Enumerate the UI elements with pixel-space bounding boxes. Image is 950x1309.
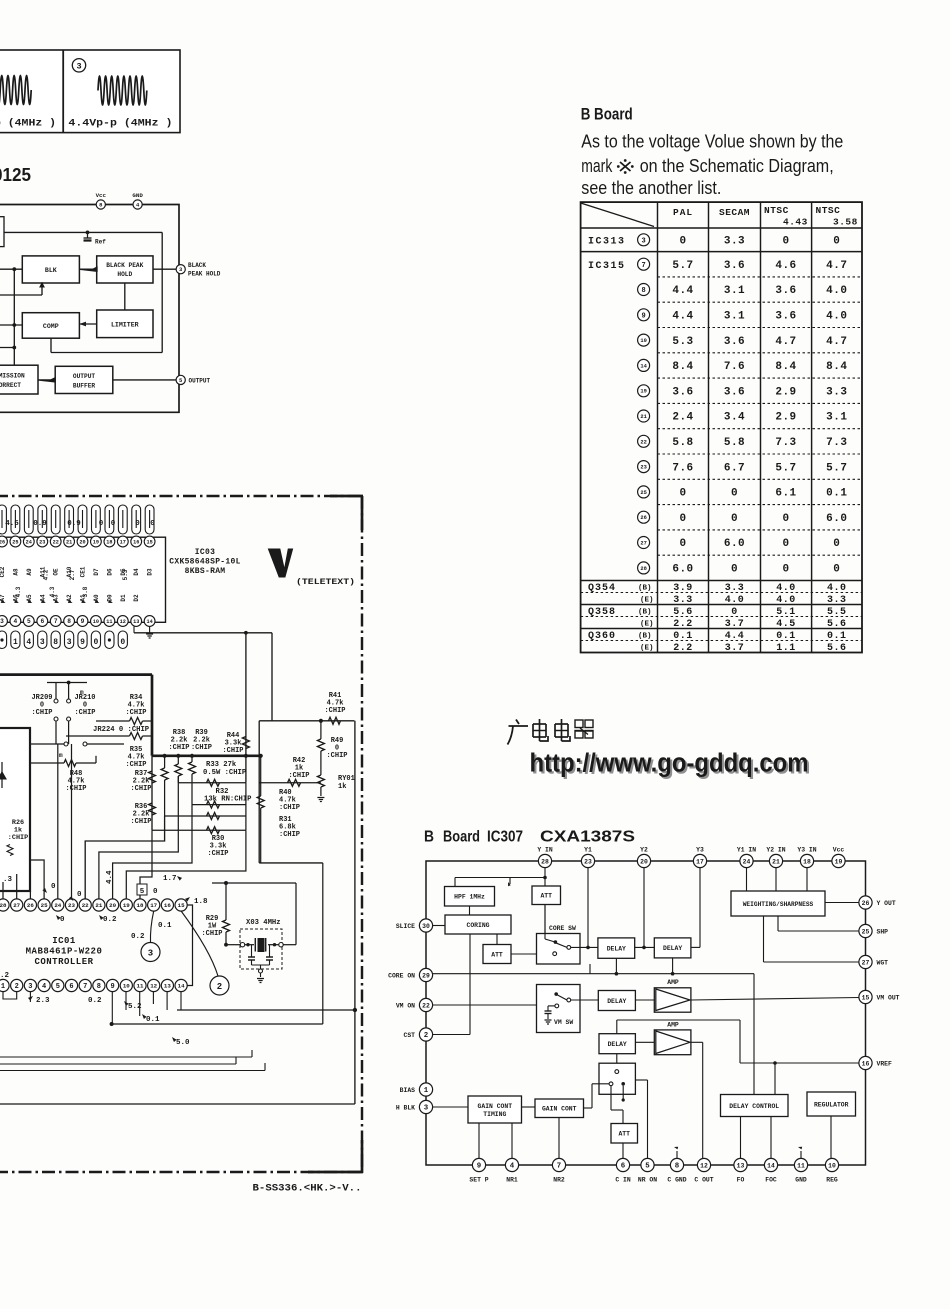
svg-text:JR224 0 :CHIP: JR224 0 :CHIP (93, 726, 150, 734)
svg-text:7.6: 7.6 (724, 361, 745, 373)
svg-text:5: 5 (27, 618, 31, 625)
svg-text:0.2: 0.2 (103, 916, 117, 924)
svg-text:19: 19 (93, 539, 99, 545)
svg-text:21: 21 (95, 902, 102, 909)
svg-text:25: 25 (12, 539, 18, 545)
svg-text:Ref: Ref (95, 239, 106, 246)
svg-text:Vcc: Vcc (833, 847, 845, 854)
svg-text:VM SW: VM SW (554, 1019, 573, 1026)
svg-text:AMP: AMP (667, 979, 679, 986)
svg-text:3.6: 3.6 (672, 386, 693, 398)
svg-text:AMP: AMP (667, 1022, 679, 1029)
svg-text:23: 23 (68, 902, 75, 909)
svg-text:9: 9 (641, 312, 645, 320)
svg-text:12: 12 (120, 619, 126, 625)
svg-text:RY01: RY01 (338, 775, 355, 783)
svg-text:(B): (B) (638, 585, 652, 593)
svg-text:0: 0 (679, 488, 686, 500)
svg-text:3.1: 3.1 (724, 285, 745, 297)
svg-text:9: 9 (477, 1163, 481, 1171)
svg-text:5.3: 5.3 (672, 336, 693, 348)
svg-text:5: 5 (56, 983, 60, 991)
svg-text:8: 8 (67, 618, 71, 625)
svg-text:24: 24 (54, 902, 61, 909)
svg-text:4.2: 4.2 (43, 569, 50, 580)
svg-text::CHIP: :CHIP (168, 744, 189, 752)
svg-text:6.0: 6.0 (826, 513, 847, 525)
svg-text:Y3: Y3 (696, 847, 704, 854)
svg-text:5.6: 5.6 (673, 607, 693, 618)
svg-text:4.0: 4.0 (827, 583, 847, 594)
svg-text:19: 19 (640, 389, 646, 395)
svg-text:20: 20 (640, 858, 648, 865)
svg-text:14: 14 (767, 1162, 775, 1169)
svg-text:9: 9 (81, 618, 85, 625)
svg-text:15: 15 (178, 902, 185, 909)
svg-text:21: 21 (772, 858, 780, 865)
svg-text:14: 14 (178, 983, 185, 990)
svg-text:0: 0 (153, 888, 158, 896)
svg-text::CHIP: :CHIP (324, 707, 345, 715)
svg-text:8: 8 (53, 638, 58, 647)
svg-text::CHIP: :CHIP (288, 772, 309, 780)
svg-text:5: 5 (140, 888, 145, 896)
svg-text::CHIP: :CHIP (326, 752, 347, 760)
svg-text:5.8: 5.8 (724, 437, 745, 449)
svg-text:ATT: ATT (540, 893, 552, 900)
svg-text:Y2 IN: Y2 IN (766, 847, 785, 854)
svg-text:0: 0 (679, 513, 686, 525)
svg-text::CHIP: :CHIP (279, 804, 300, 812)
svg-text:B Board: B Board (581, 106, 633, 124)
svg-text:3.3: 3.3 (826, 386, 847, 398)
svg-text:7: 7 (54, 618, 58, 625)
svg-text:26: 26 (0, 539, 5, 545)
svg-text:2.9: 2.9 (775, 412, 796, 424)
svg-text:2.9: 2.9 (775, 386, 796, 398)
svg-text:11: 11 (106, 619, 112, 625)
svg-text::CHIP: :CHIP (125, 709, 146, 717)
svg-text:7: 7 (83, 983, 87, 991)
svg-text:C IN: C IN (615, 1177, 631, 1184)
svg-text:3.6: 3.6 (775, 285, 796, 297)
svg-text:GND: GND (795, 1177, 807, 1184)
svg-text:3: 3 (0, 618, 4, 625)
svg-text:NSMISSION: NSMISSION (0, 373, 25, 380)
svg-text:4.43: 4.43 (783, 217, 808, 228)
svg-text:28: 28 (541, 858, 549, 865)
svg-text:25: 25 (41, 902, 48, 909)
svg-text:4.4: 4.4 (672, 285, 693, 297)
svg-text:6.1: 6.1 (775, 488, 796, 500)
svg-text:1: 1 (424, 1087, 429, 1095)
svg-text:3.6: 3.6 (724, 386, 745, 398)
svg-text:6: 6 (621, 1163, 626, 1171)
svg-text:CXK58648SP-10L: CXK58648SP-10L (169, 558, 240, 567)
svg-text:4: 4 (510, 1163, 515, 1171)
svg-text:16: 16 (133, 539, 139, 545)
svg-text:4: 4 (26, 638, 31, 647)
svg-text:3.3: 3.3 (725, 583, 745, 594)
svg-text:11: 11 (137, 983, 144, 990)
svg-text:0: 0 (731, 607, 738, 618)
svg-text:mark: mark (581, 156, 613, 176)
svg-text:17: 17 (120, 539, 126, 545)
svg-text:0.1: 0.1 (158, 922, 172, 930)
svg-text::CHIP: :CHIP (8, 834, 28, 842)
svg-text:22: 22 (640, 439, 646, 445)
svg-text:4.3: 4.3 (15, 586, 22, 597)
svg-text:2.4: 2.4 (672, 412, 693, 424)
svg-text:CORING: CORING (466, 922, 489, 929)
svg-text:BIAS: BIAS (400, 1087, 416, 1094)
svg-text:3: 3 (641, 237, 645, 245)
svg-text:0: 0 (782, 564, 789, 576)
svg-text:1: 1 (1, 983, 5, 991)
svg-text:SHP: SHP (877, 928, 889, 935)
svg-text:1k: 1k (338, 783, 346, 791)
svg-text:(B): (B) (638, 609, 652, 617)
svg-text:Q354: Q354 (588, 583, 616, 594)
svg-text:15: 15 (862, 994, 870, 1001)
svg-text:0: 0 (731, 488, 738, 500)
svg-text::CHIP: :CHIP (125, 761, 146, 769)
svg-text:4.4: 4.4 (106, 870, 114, 884)
svg-text:NR1: NR1 (506, 1177, 518, 1184)
svg-text:GND: GND (132, 192, 143, 199)
svg-text:CORE ON: CORE ON (388, 972, 415, 979)
svg-text::CHIP: :CHIP (279, 831, 300, 839)
svg-text:0.1: 0.1 (827, 631, 847, 642)
svg-text:BLACK: BLACK (188, 262, 206, 269)
svg-text:D2: D2 (133, 594, 140, 602)
svg-text:0: 0 (135, 520, 140, 528)
svg-text:10: 10 (828, 1162, 836, 1169)
svg-text:CE1: CE1 (80, 566, 87, 577)
svg-text:6.0: 6.0 (672, 564, 693, 576)
svg-text:CXA1387S: CXA1387S (540, 829, 635, 846)
svg-text:2.2: 2.2 (673, 643, 693, 654)
svg-text:28: 28 (0, 902, 7, 909)
svg-text::CHIP: :CHIP (207, 850, 228, 858)
svg-text:PEAK HOLD: PEAK HOLD (188, 271, 221, 278)
svg-text:4.7: 4.7 (775, 336, 796, 348)
svg-text:D1: D1 (120, 594, 127, 602)
svg-text::CHIP: :CHIP (31, 709, 52, 717)
svg-text:REG: REG (826, 1177, 838, 1184)
svg-text:29: 29 (422, 972, 430, 979)
svg-text:1.1: 1.1 (776, 643, 796, 654)
svg-text:4.0: 4.0 (826, 285, 847, 297)
svg-text:NTSC: NTSC (816, 205, 841, 216)
svg-text:22: 22 (422, 1002, 430, 1009)
svg-text:8: 8 (641, 287, 645, 295)
svg-text:0.9: 0.9 (33, 520, 47, 528)
svg-text:3: 3 (28, 983, 32, 991)
svg-text:CST: CST (403, 1032, 415, 1039)
svg-text:4.5: 4.5 (5, 520, 19, 528)
svg-text:SECAM: SECAM (719, 207, 750, 218)
svg-text:NR2: NR2 (553, 1177, 565, 1184)
svg-text:WEIGHTING/SHARPNESS: WEIGHTING/SHARPNESS (743, 901, 814, 908)
svg-text:3.3: 3.3 (724, 235, 745, 247)
svg-text:p (4MHz ): p (4MHz ) (0, 118, 56, 130)
svg-text:0: 0 (99, 520, 104, 528)
svg-text:3.7: 3.7 (725, 643, 745, 654)
svg-text::CHIP: :CHIP (65, 785, 86, 793)
svg-text:2.7: 2.7 (69, 569, 76, 580)
svg-text:25: 25 (640, 490, 646, 496)
svg-text:0.1: 0.1 (776, 631, 796, 642)
svg-text:3: 3 (148, 949, 153, 959)
svg-text:A7: A7 (0, 594, 6, 602)
svg-text:PAL: PAL (673, 207, 693, 218)
svg-text:1.8: 1.8 (194, 898, 208, 906)
svg-text:2: 2 (217, 982, 222, 992)
svg-text:GAIN CONT: GAIN CONT (478, 1103, 513, 1110)
svg-text:Y1: Y1 (584, 847, 592, 854)
svg-text:8: 8 (97, 983, 101, 991)
svg-text:8.4: 8.4 (672, 361, 693, 373)
svg-text:13: 13 (164, 983, 171, 990)
svg-text:(TELETEXT): (TELETEXT) (296, 577, 355, 587)
svg-text:3.9: 3.9 (673, 583, 693, 594)
svg-text:Q360: Q360 (588, 631, 616, 642)
svg-text:9: 9 (80, 638, 85, 647)
svg-text:SLICE: SLICE (396, 923, 415, 930)
svg-text:7.3: 7.3 (826, 437, 847, 449)
svg-text:0.1: 0.1 (673, 631, 693, 642)
svg-text:0125: 0125 (0, 164, 31, 185)
svg-text:0: 0 (111, 520, 116, 528)
svg-text:7: 7 (557, 1163, 561, 1171)
svg-text:5.0: 5.0 (176, 1039, 190, 1047)
svg-text:0: 0 (731, 513, 738, 525)
svg-text:0: 0 (120, 638, 125, 647)
svg-text:20: 20 (79, 539, 85, 545)
svg-text:TIMING: TIMING (483, 1111, 506, 1118)
svg-text::CHIP: :CHIP (130, 818, 151, 826)
svg-text:see the another list.: see the another list. (581, 178, 721, 198)
svg-text:(B): (B) (638, 633, 652, 641)
svg-text:1: 1 (13, 638, 18, 647)
svg-text:m: m (59, 752, 63, 759)
svg-text::CHIP: :CHIP (191, 744, 212, 752)
svg-text:2: 2 (424, 1032, 428, 1040)
svg-text:8KBS-RAM: 8KBS-RAM (185, 567, 226, 576)
svg-text:16: 16 (164, 902, 171, 909)
svg-text:6.0: 6.0 (724, 538, 745, 550)
svg-text:5.5: 5.5 (827, 607, 847, 618)
svg-text:17: 17 (696, 858, 704, 865)
svg-text:4.7: 4.7 (826, 336, 847, 348)
svg-text:VREF: VREF (877, 1060, 893, 1067)
svg-text:24: 24 (26, 539, 32, 545)
svg-text::CHIP: :CHIP (201, 930, 222, 938)
svg-text:ATT: ATT (618, 1131, 630, 1138)
svg-text:VM ON: VM ON (396, 1002, 415, 1009)
svg-text:0.2: 0.2 (88, 997, 102, 1005)
svg-text:0.1: 0.1 (146, 1016, 160, 1024)
svg-text:18: 18 (137, 902, 144, 909)
svg-text:0: 0 (93, 638, 98, 647)
svg-text:1.7: 1.7 (163, 875, 177, 883)
svg-text:3: 3 (76, 61, 81, 71)
svg-text:19: 19 (835, 858, 843, 865)
svg-text:0: 0 (731, 564, 738, 576)
svg-text:5.7: 5.7 (775, 462, 796, 474)
svg-text:2: 2 (15, 983, 19, 991)
svg-text:23: 23 (39, 539, 45, 545)
svg-text:As to the voltage Volue shown: As to the voltage Volue shown by the (581, 132, 843, 152)
svg-text:4.4: 4.4 (725, 631, 745, 642)
svg-text:(E): (E) (640, 597, 654, 605)
svg-text:CONTROLLER: CONTROLLER (34, 957, 93, 967)
svg-text:6: 6 (69, 983, 73, 991)
svg-text:7.6: 7.6 (672, 462, 693, 474)
svg-text:COMP: COMP (43, 323, 59, 330)
svg-text:MAB8461P-W220: MAB8461P-W220 (26, 947, 103, 957)
svg-text:DELAY: DELAY (607, 998, 626, 1005)
svg-text:3: 3 (40, 638, 45, 647)
svg-text:HPF 1MHz: HPF 1MHz (454, 894, 485, 901)
svg-text:LIMITER: LIMITER (111, 322, 139, 329)
svg-text:4.6: 4.6 (775, 260, 796, 272)
svg-text:.3: .3 (3, 876, 13, 884)
svg-text:IC315: IC315 (588, 261, 626, 272)
svg-text:DELAY: DELAY (608, 1041, 627, 1048)
svg-text:25: 25 (862, 928, 870, 935)
svg-text:21: 21 (66, 539, 72, 545)
svg-text:C GND: C GND (667, 1177, 686, 1184)
svg-text:3: 3 (67, 638, 72, 647)
svg-text:A0: A0 (93, 594, 100, 602)
svg-text:4: 4 (14, 618, 18, 625)
svg-text:27: 27 (862, 959, 870, 966)
svg-text:24: 24 (743, 858, 751, 865)
svg-text:B: B (424, 829, 434, 846)
svg-text:4.4: 4.4 (672, 311, 693, 323)
svg-text:SET P: SET P (469, 1177, 488, 1184)
svg-text:Y2: Y2 (640, 847, 648, 854)
svg-text:8.4: 8.4 (775, 361, 796, 373)
svg-text:23: 23 (640, 465, 646, 471)
svg-text:0: 0 (782, 513, 789, 525)
svg-text:C OUT: C OUT (694, 1177, 713, 1184)
svg-text:4: 4 (42, 983, 46, 991)
svg-text:3: 3 (424, 1105, 429, 1113)
svg-text:ATT: ATT (491, 951, 503, 958)
svg-text:5.6: 5.6 (827, 643, 847, 654)
svg-text:23: 23 (584, 858, 592, 865)
svg-text:7.3: 7.3 (775, 437, 796, 449)
svg-text:A4: A4 (39, 594, 46, 602)
svg-text:14: 14 (146, 619, 152, 625)
svg-text:10: 10 (123, 983, 130, 990)
svg-text:22: 22 (53, 539, 59, 545)
svg-text:X03 4MHz: X03 4MHz (246, 919, 281, 927)
svg-text:4.0: 4.0 (826, 311, 847, 323)
svg-text:0: 0 (833, 538, 840, 550)
svg-text:WGT: WGT (877, 959, 889, 966)
svg-text:17: 17 (150, 902, 157, 909)
svg-text:27: 27 (640, 541, 646, 547)
svg-text:http://www.go-gddq.com: http://www.go-gddq.com (530, 750, 809, 778)
svg-text:3.6: 3.6 (724, 260, 745, 272)
svg-text:26: 26 (27, 902, 34, 909)
svg-text:VM OUT: VM OUT (877, 994, 900, 1001)
svg-text:4.0: 4.0 (776, 583, 796, 594)
svg-text:5.8: 5.8 (672, 437, 693, 449)
svg-text:0.2: 0.2 (131, 933, 145, 941)
svg-text:0: 0 (150, 520, 155, 528)
svg-text:(E): (E) (640, 645, 654, 653)
svg-text:B-SS336.<HK.>-V..: B-SS336.<HK.>-V.. (253, 1183, 362, 1195)
svg-text:D3: D3 (147, 568, 154, 576)
svg-text:5.1: 5.1 (776, 607, 796, 618)
svg-text:14: 14 (640, 363, 647, 369)
svg-text:0: 0 (60, 916, 65, 924)
svg-text:OE: OE (53, 568, 60, 576)
svg-text:IC313: IC313 (588, 236, 626, 247)
svg-text:on the Schematic Diagram,: on the Schematic Diagram, (640, 156, 834, 176)
svg-text:5.7: 5.7 (826, 462, 847, 474)
svg-text:DELAY: DELAY (663, 945, 682, 952)
svg-text:A5: A5 (26, 594, 33, 602)
svg-text:BUFFER: BUFFER (73, 383, 96, 390)
svg-text:19: 19 (123, 902, 130, 909)
svg-text:13: 13 (133, 619, 139, 625)
svg-text:0: 0 (679, 538, 686, 550)
svg-text:IC03: IC03 (195, 548, 215, 557)
svg-text:13: 13 (737, 1162, 745, 1169)
svg-text:CE2: CE2 (0, 566, 6, 577)
svg-text:NTSC: NTSC (764, 205, 789, 216)
svg-text:5: 5 (645, 1163, 650, 1171)
svg-text:D0: D0 (106, 594, 113, 602)
svg-text:0.1: 0.1 (826, 488, 847, 500)
svg-text:5.7: 5.7 (672, 260, 693, 272)
svg-text:IC307: IC307 (487, 829, 523, 846)
svg-text:H BLK: H BLK (396, 1104, 415, 1111)
svg-text:Y OUT: Y OUT (877, 900, 896, 907)
svg-text:0: 0 (782, 235, 789, 247)
svg-text:D6: D6 (106, 568, 113, 576)
svg-text:0: 0 (782, 538, 789, 550)
svg-text:20: 20 (109, 902, 116, 909)
svg-text:Q358: Q358 (588, 607, 616, 618)
svg-text:D7: D7 (93, 568, 100, 576)
svg-text:0.9: 0.9 (67, 520, 81, 528)
svg-text:4.3: 4.3 (49, 586, 56, 597)
svg-text:A2: A2 (66, 594, 73, 602)
svg-text:28: 28 (640, 566, 646, 572)
svg-text:0: 0 (77, 891, 82, 899)
svg-text:IC01: IC01 (52, 936, 76, 946)
svg-text:0: 0 (833, 564, 840, 576)
svg-text:3.58: 3.58 (833, 217, 858, 228)
svg-text:26: 26 (640, 515, 646, 521)
svg-text:HOLD: HOLD (117, 271, 132, 278)
svg-text:CORRECT: CORRECT (0, 382, 21, 389)
svg-text::CHIP: :CHIP (222, 747, 243, 755)
svg-text:0: 0 (833, 235, 840, 247)
svg-text:5.3: 5.3 (122, 569, 129, 580)
svg-text:REGULATOR: REGULATOR (814, 1101, 849, 1108)
svg-text:FOC: FOC (765, 1177, 777, 1184)
svg-text:GAIN CONT: GAIN CONT (542, 1106, 577, 1113)
svg-text:OUTPUT: OUTPUT (73, 373, 96, 380)
